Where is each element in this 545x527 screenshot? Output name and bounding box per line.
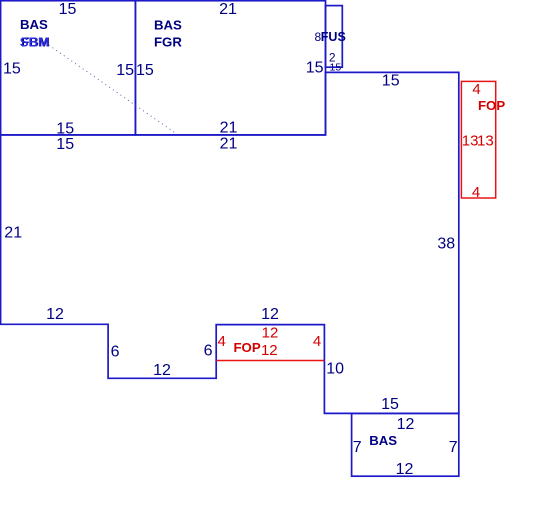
svg-text:21: 21 [220, 120, 238, 137]
svg-text:7: 7 [353, 439, 362, 456]
svg-text:4: 4 [313, 333, 321, 350]
FOP divider red line (middle porch) [216, 360, 324, 362]
svg-text:12: 12 [46, 306, 64, 323]
svg-text:21: 21 [4, 225, 22, 242]
svg-text:15: 15 [330, 62, 342, 74]
svg-text:15: 15 [3, 60, 21, 77]
area outline BAS/FGR (top-middle rectangle) [135, 1, 325, 135]
svg-text:15: 15 [136, 62, 154, 79]
svg-text:SBM: SBM [20, 35, 49, 50]
area outline BAS (bottom rectangle) [352, 413, 459, 476]
svg-text:15: 15 [59, 1, 77, 18]
dotted split line [49, 45, 176, 134]
svg-text:15: 15 [381, 396, 399, 413]
main floor outline polygon [1, 72, 459, 413]
svg-text:21: 21 [220, 136, 238, 153]
svg-text:6: 6 [204, 343, 213, 360]
svg-text:12: 12 [261, 306, 279, 323]
svg-text:6: 6 [111, 343, 120, 360]
area outline BAS/FBM/SBM (top-left rectangle) [1, 1, 136, 135]
svg-text:10: 10 [326, 361, 344, 378]
svg-text:13: 13 [462, 133, 479, 150]
svg-text:38: 38 [437, 235, 455, 252]
svg-text:4: 4 [218, 333, 226, 350]
svg-text:15: 15 [306, 60, 324, 77]
svg-text:12: 12 [153, 362, 171, 379]
svg-text:4: 4 [472, 184, 480, 201]
svg-text:12: 12 [396, 461, 414, 478]
svg-text:21: 21 [219, 1, 237, 18]
svg-text:BAS: BAS [154, 17, 182, 32]
svg-text:FGR: FGR [154, 34, 182, 49]
svg-text:FUS: FUS [321, 30, 346, 44]
svg-text:15: 15 [56, 136, 74, 153]
svg-text:12: 12 [262, 325, 279, 342]
svg-text:12: 12 [261, 342, 278, 359]
svg-text:FOP: FOP [478, 98, 505, 113]
svg-text:12: 12 [397, 416, 415, 433]
area outline FOP (right red rectangle) [461, 81, 495, 198]
area outline FUS (narrow top-right rectangle) [326, 6, 343, 68]
svg-text:FOP: FOP [234, 340, 261, 355]
svg-text:7: 7 [449, 439, 458, 456]
svg-text:15: 15 [116, 62, 134, 79]
svg-text:13: 13 [477, 133, 494, 150]
svg-text:4: 4 [472, 81, 480, 98]
svg-text:15: 15 [382, 72, 400, 89]
svg-text:BAS: BAS [20, 17, 48, 32]
svg-text:BAS: BAS [369, 433, 397, 448]
